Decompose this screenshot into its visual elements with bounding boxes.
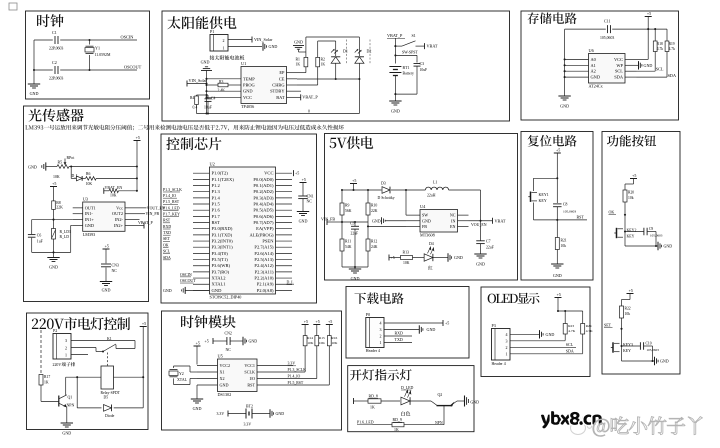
svg-text:+5: +5 xyxy=(556,148,560,153)
svg-text:D1: D1 xyxy=(343,49,348,54)
ground BT2 xyxy=(269,409,271,417)
svg-text:4.7k: 4.7k xyxy=(669,47,675,51)
watermark paw logo xyxy=(568,413,592,435)
svg-text:P1.6_LED: P1.6_LED xyxy=(357,420,374,424)
svg-text:Header 4: Header 4 xyxy=(492,362,506,366)
wire U1 VCC xyxy=(207,96,242,98)
svg-text:P1.6_LED: P1.6_LED xyxy=(163,206,180,210)
ground Q2 xyxy=(464,396,466,407)
svg-text:P1.5_RST: P1.5_RST xyxy=(288,381,304,385)
wire key1 loop xyxy=(534,177,558,179)
wire P3 pin1 SDA xyxy=(510,353,583,355)
resistor R2 xyxy=(317,41,319,57)
svg-text:GND: GND xyxy=(299,219,308,224)
svg-text:R_LD: R_LD xyxy=(60,235,70,239)
junction reset top xyxy=(556,177,558,179)
wire P0 pin2 RXD xyxy=(384,335,412,337)
svg-text:D2: D2 xyxy=(367,49,372,54)
resistor R7 xyxy=(104,190,109,192)
transistor Q2 xyxy=(431,401,437,406)
svg-text:OSCOUT: OSCOUT xyxy=(180,279,196,283)
resistor R22 xyxy=(620,306,624,318)
diode D5 xyxy=(104,405,112,412)
svg-text:GND: GND xyxy=(560,104,569,109)
svg-text:10K: 10K xyxy=(307,341,314,345)
svg-text:KEY: KEY xyxy=(627,235,635,239)
svg-text:1K: 1K xyxy=(394,428,399,432)
svg-text:GND: GND xyxy=(546,332,555,337)
svg-text:R20: R20 xyxy=(628,191,634,195)
svg-text:10K: 10K xyxy=(86,182,93,186)
svg-text:R9: R9 xyxy=(345,204,350,208)
diode D3 schottky xyxy=(382,187,390,194)
svg-text:P1: P1 xyxy=(210,29,214,34)
svg-text:P3.1(TXD): P3.1(TXD) xyxy=(212,232,233,237)
svg-text:SCL: SCL xyxy=(566,342,574,347)
svg-text:+5: +5 xyxy=(295,171,299,176)
svg-text:GND: GND xyxy=(372,218,381,223)
svg-text:KEY1: KEY1 xyxy=(539,192,549,197)
wire P1 GND xyxy=(228,46,262,48)
svg-text:GND: GND xyxy=(193,406,202,411)
svg-text:2: 2 xyxy=(380,334,382,339)
svg-text:P0.7(AD7): P0.7(AD7) xyxy=(253,220,274,225)
svg-text:R12: R12 xyxy=(371,240,377,244)
label VIN_FB 5v xyxy=(326,219,328,225)
svg-text:1K: 1K xyxy=(370,405,375,409)
box 220V市电灯控制 xyxy=(27,313,149,430)
svg-text:VCC: VCC xyxy=(243,95,252,100)
resistor R1 xyxy=(304,57,308,66)
svg-text:PSEN: PSEN xyxy=(262,239,274,244)
resistor R23 xyxy=(564,311,566,324)
svg-text:Q1: Q1 xyxy=(68,396,73,400)
svg-text:RPot: RPot xyxy=(67,156,76,160)
power +5 R8 xyxy=(50,186,57,188)
svg-text:SDA: SDA xyxy=(614,75,624,80)
svg-text:+5: +5 xyxy=(445,321,449,326)
ground storage xyxy=(558,95,570,97)
svg-text:RST: RST xyxy=(247,383,255,388)
svg-text:C4: C4 xyxy=(211,97,216,101)
dashed guide D1 xyxy=(345,40,347,65)
wire to Q2 xyxy=(411,400,432,402)
svg-text:P0.6(AD6): P0.6(AD6) xyxy=(253,214,274,219)
resistor R4 xyxy=(196,95,198,96)
svg-text:KEY3: KEY3 xyxy=(623,343,633,347)
svg-text:1: 1 xyxy=(65,353,67,358)
resistor R24 xyxy=(582,311,584,324)
wire IN1+ row xyxy=(32,219,73,221)
svg-text:GND: GND xyxy=(220,383,229,388)
svg-text:OSCOUT: OSCOUT xyxy=(124,65,142,70)
svg-text:U2: U2 xyxy=(210,162,215,167)
svg-text:C7: C7 xyxy=(486,240,491,244)
LED D1 xyxy=(331,56,340,58)
svg-text:SCL: SCL xyxy=(615,69,623,74)
svg-text:C3: C3 xyxy=(420,62,425,66)
power +5 oled xyxy=(555,297,562,299)
svg-text:A2: A2 xyxy=(591,69,596,74)
svg-text:P0: P0 xyxy=(366,312,370,317)
label VIN_Solar xyxy=(186,81,188,87)
wire solar bottom xyxy=(197,113,360,115)
chip U6 AT24Cx xyxy=(589,54,626,84)
svg-text:11.0592M: 11.0592M xyxy=(95,53,111,57)
svg-text:P3.7(RO): P3.7(RO) xyxy=(212,269,230,274)
svg-text:+5: +5 xyxy=(52,181,56,186)
svg-text:R3: R3 xyxy=(219,80,224,84)
svg-text:56K: 56K xyxy=(345,209,352,213)
capacitor C9 xyxy=(625,231,644,233)
watermark ybx8.cn xyxy=(541,411,602,428)
wire STDBY stub xyxy=(297,90,301,92)
svg-text:MT3608: MT3608 xyxy=(420,233,435,238)
title 下载电路 xyxy=(354,292,403,304)
inductor L1 xyxy=(425,187,448,190)
svg-text:NC: NC xyxy=(450,213,456,218)
svg-text:SW: SW xyxy=(422,213,428,218)
title OLED显示 xyxy=(488,293,540,304)
box 下载电路 xyxy=(346,287,469,359)
watermark @吃小竹子丫 xyxy=(593,417,703,437)
wire FB join xyxy=(342,221,368,223)
wire clock left xyxy=(33,40,35,84)
box 功能按钮 xyxy=(602,132,680,375)
wire key2 bottom xyxy=(625,245,656,247)
capacitor C11 xyxy=(607,25,609,33)
ground WP xyxy=(637,64,639,66)
svg-text:+5: +5 xyxy=(302,177,306,182)
wire VIN_Solar stub xyxy=(228,39,252,41)
wire VCC2 xyxy=(196,365,198,367)
power +5 R22 xyxy=(627,293,634,295)
svg-text:P1.4_IO: P1.4_IO xyxy=(288,374,301,378)
power +5 VCC2 xyxy=(194,345,201,347)
title 太阳能供电 xyxy=(167,16,236,29)
capacitor C8 xyxy=(553,203,562,205)
svg-text:R23: R23 xyxy=(568,324,574,328)
capacitor C4 xyxy=(207,95,209,99)
capacitor C6 xyxy=(31,220,33,234)
title 存储电路 xyxy=(528,12,577,24)
box 光传感器 xyxy=(24,106,149,302)
svg-text:GND: GND xyxy=(212,288,223,293)
svg-text:IN1+: IN1+ xyxy=(85,217,95,222)
svg-text:D5: D5 xyxy=(104,396,109,400)
power +5 CN3 xyxy=(103,248,110,250)
label VOUT_EN xyxy=(140,207,147,209)
svg-text:GND: GND xyxy=(49,265,58,270)
title 控制芯片 xyxy=(166,137,221,150)
resistor R3 xyxy=(207,84,219,86)
svg-text:10k: 10k xyxy=(561,244,567,248)
svg-text:X2: X2 xyxy=(220,376,225,381)
resistor R14 xyxy=(302,324,309,326)
svg-text:NPN: NPN xyxy=(67,403,75,407)
wire VCC +5 xyxy=(637,58,649,60)
svg-text:P1.1(T2EX): P1.1(T2EX) xyxy=(212,177,235,182)
wire 5v bottom xyxy=(342,266,368,268)
connector P1 xyxy=(210,35,228,52)
svg-text:NC: NC xyxy=(112,269,118,273)
LED D4 xyxy=(424,254,433,261)
svg-text:10uF: 10uF xyxy=(420,68,428,72)
wire Q2 collector xyxy=(457,400,465,402)
LED D2 xyxy=(355,56,364,58)
svg-text:+5: +5 xyxy=(647,11,651,16)
svg-text:NC: NC xyxy=(307,200,313,204)
box 控制芯片 xyxy=(161,134,317,303)
wire pot row xyxy=(69,166,137,168)
svg-text:4.7K: 4.7K xyxy=(568,329,575,333)
svg-text:Q2: Q2 xyxy=(438,393,443,397)
box 开灯指示灯 xyxy=(348,366,474,432)
svg-text:ALE(PROG): ALE(PROG) xyxy=(250,232,274,237)
svg-text:SDA: SDA xyxy=(668,73,676,78)
svg-text:CN2: CN2 xyxy=(225,332,232,336)
svg-text:GND: GND xyxy=(476,262,485,267)
chip U1 TP4056 xyxy=(241,67,287,104)
svg-text:VBAT: VBAT xyxy=(495,218,506,223)
svg-text:R6: R6 xyxy=(86,172,91,176)
wire divider left xyxy=(341,190,343,203)
chip U4 MT3608 xyxy=(420,210,458,233)
svg-text:D4: D4 xyxy=(429,242,434,246)
svg-text:CN3: CN3 xyxy=(112,263,119,267)
svg-text:10k: 10k xyxy=(628,196,634,200)
svg-text:GND: GND xyxy=(294,40,303,45)
connector P2 xyxy=(53,334,71,360)
wire relay row xyxy=(66,376,101,378)
svg-text:GND: GND xyxy=(660,359,669,364)
svg-text:1: 1 xyxy=(506,351,508,356)
box 太阳能供电 xyxy=(162,11,510,121)
svg-text:R24: R24 xyxy=(586,324,592,328)
resistor R12 xyxy=(366,239,370,251)
power +5 220v xyxy=(140,326,147,328)
label 接太阳能电池板 xyxy=(210,55,245,60)
svg-text:P3.5(T1): P3.5(T1) xyxy=(212,257,229,262)
svg-text:+5: +5 xyxy=(629,288,633,293)
connector P3 xyxy=(492,329,511,361)
wire P0 pin1 TXD xyxy=(384,342,412,344)
wire LED top rail xyxy=(306,36,360,38)
svg-text:R_LD1: R_LD1 xyxy=(60,230,71,234)
svg-text:+5: +5 xyxy=(196,341,200,346)
svg-text:VIN_FB: VIN_FB xyxy=(321,217,335,222)
capacitor CN2 xyxy=(213,340,227,342)
power +5 R20 xyxy=(630,178,637,180)
svg-text:GND: GND xyxy=(269,44,278,49)
junction storage bus xyxy=(564,58,566,60)
svg-text:GND: GND xyxy=(276,411,285,416)
svg-text:P1.7: P1.7 xyxy=(212,214,221,219)
svg-text:U3: U3 xyxy=(83,197,88,202)
svg-text:D_L: D_L xyxy=(287,280,295,284)
resistor R10 xyxy=(366,203,370,215)
svg-text:P1.3_SCLK: P1.3_SCLK xyxy=(163,188,182,192)
svg-text:KEY2: KEY2 xyxy=(627,229,637,233)
svg-text:1: 1 xyxy=(380,340,382,345)
svg-text:P0.5(AD5): P0.5(AD5) xyxy=(253,208,274,213)
svg-text:STDBY: STDBY xyxy=(270,89,285,94)
svg-text:3.3V: 3.3V xyxy=(217,412,225,416)
svg-text:IN2+: IN2+ xyxy=(114,223,124,228)
svg-text:OK: OK xyxy=(609,209,615,214)
svg-text:R17: R17 xyxy=(44,375,50,379)
svg-text:GND: GND xyxy=(243,89,253,94)
svg-text:2: 2 xyxy=(223,38,225,43)
svg-text:P1.5_RST: P1.5_RST xyxy=(163,200,180,204)
wire OSCOUT xyxy=(34,69,53,71)
svg-text:RD_8: RD_8 xyxy=(369,394,378,398)
svg-text:GND: GND xyxy=(30,91,39,96)
wire EP xyxy=(297,72,306,74)
svg-text:Y1: Y1 xyxy=(95,45,100,50)
svg-text:EN: EN xyxy=(450,224,456,229)
svg-text:22K: 22K xyxy=(371,209,378,213)
svg-text:2.4K: 2.4K xyxy=(218,89,226,93)
ground C7 xyxy=(474,253,486,255)
crystal Y2 xyxy=(190,371,197,373)
junction clock xyxy=(88,39,90,41)
svg-text:KEY: KEY xyxy=(539,198,547,203)
svg-text:R14: R14 xyxy=(307,336,313,340)
power +5 CN2 xyxy=(212,338,214,344)
label VIN_FB xyxy=(140,213,146,215)
ground key2 xyxy=(656,245,658,247)
svg-text:DS1302: DS1302 xyxy=(218,392,232,397)
svg-text:OSCIN: OSCIN xyxy=(180,273,192,277)
ground battery xyxy=(394,94,396,101)
svg-text:D3: D3 xyxy=(381,182,386,186)
svg-text:VIN_FB: VIN_FB xyxy=(146,212,160,216)
svg-text:P3.2(INT0): P3.2(INT0) xyxy=(212,239,234,244)
svg-text:4: 4 xyxy=(380,321,382,326)
wire P2 pin3 xyxy=(71,340,135,342)
svg-text:TXD: TXD xyxy=(395,337,403,342)
button KEY2 xyxy=(616,228,618,238)
svg-text:U6: U6 xyxy=(589,48,595,53)
resistor R20 xyxy=(623,190,627,202)
corner mark xyxy=(9,3,17,10)
title 220V市电灯控制 xyxy=(32,317,130,330)
svg-text:SW-SPST: SW-SPST xyxy=(402,51,418,55)
ground CN1 xyxy=(297,211,309,213)
ground D4 xyxy=(433,257,448,259)
photoresistor R_LD xyxy=(53,220,55,229)
ground Q1 xyxy=(61,422,73,424)
svg-text:OK: OK xyxy=(163,243,169,247)
wire D_L drop xyxy=(70,167,72,179)
label RST reset xyxy=(556,219,558,221)
wire sensor bottom xyxy=(32,251,71,253)
svg-text:R10: R10 xyxy=(371,204,377,208)
svg-text:220V: 220V xyxy=(53,363,62,367)
svg-text:STC89C52_DIP40: STC89C52_DIP40 xyxy=(210,295,242,300)
wire TEMP xyxy=(207,78,242,80)
capacitor C2 xyxy=(54,66,56,74)
label VBAT_P sensor xyxy=(140,224,145,226)
svg-text:22uF: 22uF xyxy=(351,232,359,236)
resistor R9 xyxy=(340,203,344,215)
resistor RD_8 xyxy=(368,399,381,403)
svg-text:OUT1: OUT1 xyxy=(85,205,96,210)
svg-text:22uH: 22uH xyxy=(427,194,436,198)
svg-text:GND: GND xyxy=(102,288,111,293)
svg-text:C6: C6 xyxy=(37,233,42,237)
svg-text:VCC: VCC xyxy=(264,171,273,176)
svg-text:GND: GND xyxy=(28,164,37,169)
svg-text:R21: R21 xyxy=(561,239,567,243)
svg-text:X1: X1 xyxy=(220,370,225,375)
relay coil Relay-SPDT xyxy=(101,366,114,389)
svg-text:R16: R16 xyxy=(331,336,337,340)
label VBAT_EN xyxy=(103,188,105,194)
svg-text:U1: U1 xyxy=(241,61,246,66)
svg-text:GND: GND xyxy=(664,244,673,249)
svg-text:BAT: BAT xyxy=(276,95,285,100)
svg-text:R18: R18 xyxy=(657,42,663,46)
box OLED显示 xyxy=(481,287,590,377)
wire P3 pin2 xyxy=(510,346,576,348)
svg-text:Y2: Y2 xyxy=(179,372,184,376)
title 时钟模块 xyxy=(181,315,236,328)
svg-text:P3: P3 xyxy=(492,323,496,328)
svg-text:Relay-SPDT: Relay-SPDT xyxy=(101,391,121,395)
wire P2 pin1 xyxy=(71,354,88,356)
wire FB xyxy=(368,225,406,227)
svg-text:3: 3 xyxy=(380,327,382,332)
svg-text:TEMP: TEMP xyxy=(243,76,255,81)
svg-text:+5: +5 xyxy=(136,135,140,140)
svg-text:VIN_Solar: VIN_Solar xyxy=(189,78,208,83)
svg-text:C2: C2 xyxy=(52,60,57,65)
svg-text:3.3V: 3.3V xyxy=(288,361,296,365)
svg-text:1: 1 xyxy=(223,46,225,51)
box 复位电路 xyxy=(521,132,593,281)
wire P3 pin3 SCL xyxy=(510,340,565,342)
diode D_L xyxy=(71,177,76,179)
svg-text:+5: +5 xyxy=(352,178,356,183)
svg-text:Vcc: Vcc xyxy=(116,205,123,210)
svg-text:VCC: VCC xyxy=(614,57,623,62)
svg-text:IN1-: IN1- xyxy=(85,211,94,216)
wire IN VBAT xyxy=(469,220,493,222)
svg-text:D_LED: D_LED xyxy=(401,386,414,390)
svg-text:10K: 10K xyxy=(53,175,60,179)
svg-text:SDA: SDA xyxy=(566,348,574,353)
wire solar bus xyxy=(206,71,208,114)
svg-text:CHRG: CHRG xyxy=(272,83,285,88)
svg-text:FB: FB xyxy=(422,224,427,229)
resistor R18 xyxy=(654,29,656,41)
svg-text:P2.0(A8): P2.0(A8) xyxy=(257,288,274,293)
title 复位电路 xyxy=(528,135,577,147)
svg-text:EA(VPP): EA(VPP) xyxy=(256,226,274,231)
svg-text:SET: SET xyxy=(604,322,612,327)
svg-text:10K: 10K xyxy=(319,341,326,345)
svg-text:EP: EP xyxy=(279,70,285,75)
connector P0 xyxy=(366,318,384,348)
LED D_LED xyxy=(401,397,410,405)
potentiometer R5 xyxy=(57,165,69,169)
svg-text:GND: GND xyxy=(454,255,463,260)
wire Q1 collector xyxy=(65,377,67,395)
svg-text:P0.1(AD1): P0.1(AD1) xyxy=(253,183,274,188)
chip U2 STC89C52 xyxy=(210,167,276,294)
